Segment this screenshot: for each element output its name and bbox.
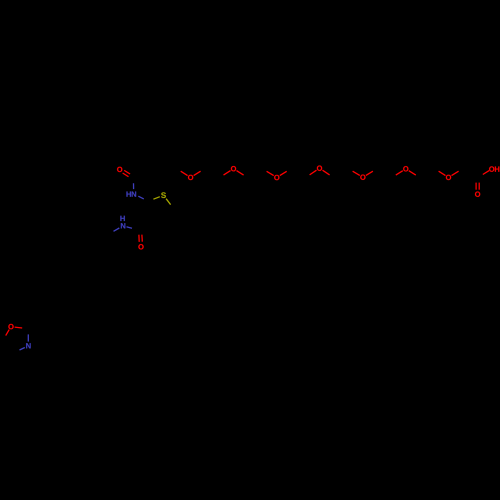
oxazoline C2=N bond	[27, 334, 29, 341]
chain bond 5	[205, 169, 219, 178]
chain bond 22 O-C (C half)	[459, 169, 463, 172]
chain bond 19 O-C (C half)	[416, 175, 420, 178]
acid C=O double bond line b	[478, 183, 480, 190]
chain bond 16 O-C	[366, 171, 373, 175]
chain bond 7 O-C (C half)	[244, 175, 248, 178]
bond C(=O)-N amide2	[127, 227, 133, 229]
acid C=O double bond line a	[475, 183, 477, 190]
chain bond 2	[162, 169, 176, 178]
oxazoline C2=N bond (C half)	[27, 329, 29, 335]
chain bond 19 O-C	[409, 171, 416, 175]
amide C=O stub	[139, 231, 141, 235]
chain bond 17	[377, 169, 391, 178]
acyl C=O double bond line a	[124, 170, 130, 174]
alkyl chain bond 12	[42, 311, 55, 319]
atom O ether 4	[317, 166, 322, 171]
atom N (amide 2)	[121, 223, 125, 228]
bond CH3-N amide2 (C half)	[109, 231, 113, 234]
bond C5-S1 thiophene	[166, 199, 171, 205]
thiophene C2=C3	[149, 201, 153, 218]
chain bond 22 O-C	[452, 171, 459, 175]
alkyl chain bond 9	[82, 311, 95, 319]
atom O (acyl carbonyl)	[117, 167, 122, 172]
chain bond 8	[248, 169, 262, 178]
alkyl chain bond 1	[163, 237, 176, 245]
alkyl chain bond 11	[55, 311, 68, 319]
atom O oxazoline	[8, 324, 13, 329]
acid OH hydrogen	[495, 166, 499, 171]
chain bond 13 O-C (C half)	[330, 175, 334, 178]
chain bond 13 O-C	[323, 170, 330, 175]
chain bond 3 C-O	[181, 171, 188, 175]
oxazoline C4-C5	[3, 340, 14, 353]
bond C2-S1 thiophene (C half)	[149, 199, 154, 201]
chain bond 6 C-O	[224, 171, 231, 176]
oxazoline C5-O bond (C half)	[3, 336, 6, 341]
atom O ether 1	[188, 175, 193, 180]
alkyl chain bond 3	[145, 262, 158, 270]
atom O (amide 2 carbonyl)	[138, 244, 143, 249]
atom O ether 6	[403, 166, 408, 171]
bond C3-C(=O)	[140, 218, 152, 230]
atom O (acid carbonyl)	[475, 192, 480, 197]
bond C2-S1 thiophene	[153, 197, 159, 200]
atom O of acid OH	[489, 166, 494, 171]
atom S thiophene	[161, 192, 166, 198]
amide C=O double bond line b	[141, 235, 143, 242]
chain bond 3 C-O (C half)	[176, 169, 180, 172]
oxazoline C2-O bond (C half)	[22, 327, 28, 330]
chain bond 23	[463, 169, 478, 178]
atom O ether 3	[274, 175, 279, 180]
oxazoline C4-N bond	[20, 348, 25, 351]
oxazoline C4-N bond (C half)	[14, 350, 20, 353]
oxazoline C5-O bond	[6, 330, 10, 336]
alkyl chain bond 2	[158, 245, 163, 262]
amide 1 N-H hydrogen	[126, 191, 130, 196]
chain bond 18 C-O	[396, 171, 403, 175]
alkyl chain bond 0	[170, 221, 177, 237]
chain bond 16 O-C (C half)	[373, 169, 377, 172]
alkyl chain bond 4	[140, 269, 145, 286]
amide C=O double bond line a	[138, 235, 140, 242]
chain bond 15 C-O (C half)	[348, 169, 352, 172]
chain bond 10 O-C (C half)	[287, 169, 291, 172]
thiophene C2=C3 inner	[151, 203, 155, 220]
bond N(H)-C2 thiophene (C half)	[144, 199, 149, 201]
bond N(H)-C2 thiophene	[138, 196, 144, 199]
amide 2 N-H hydrogen	[120, 216, 124, 221]
atom O ether 5	[360, 175, 365, 180]
chain bond 9 C-O	[267, 171, 274, 175]
atom O ether 2	[231, 166, 236, 171]
chain bond 1	[148, 169, 162, 178]
thiophene C4=C5	[170, 209, 174, 221]
acid C-OH bond	[483, 171, 489, 175]
alkyl chain bond 10	[69, 311, 82, 319]
chain bond 12 C-O	[310, 170, 317, 175]
bond C5-S1 thiophene (C half)	[171, 205, 174, 209]
thiophene C3-C4	[152, 218, 169, 221]
bond C(acyl)-N amide1	[133, 183, 135, 189]
chain bond 12 C-O (C half)	[305, 175, 309, 178]
alkyl chain bond 5	[127, 286, 140, 294]
chain bond 14	[334, 169, 348, 178]
chain bond 20	[420, 169, 434, 178]
chain bond 11	[291, 169, 305, 178]
chain bond 21 C-O (C half)	[434, 169, 438, 172]
chain bond 4 O-C	[194, 171, 201, 175]
acid C-OH bond (C half)	[478, 175, 483, 178]
bond CH3-N amide2	[114, 228, 120, 231]
chain bond 0	[133, 169, 147, 178]
alkyl chain bond 6	[122, 294, 127, 311]
atom N (amide 1)	[132, 191, 136, 196]
oxazoline C2-O bond	[15, 326, 23, 329]
chain bond 6 C-O (C half)	[219, 175, 223, 178]
chain bond 15 C-O	[353, 171, 360, 175]
chain bond 21 C-O	[439, 171, 446, 175]
alkyl chain bond 7	[109, 311, 122, 319]
alkyl chain bond 13	[28, 311, 42, 329]
chain bond 10 O-C	[280, 171, 287, 175]
chain bond 18 C-O (C half)	[392, 175, 396, 178]
chain bond 9 C-O (C half)	[262, 169, 266, 172]
chain bond 4 O-C (C half)	[201, 169, 205, 172]
alkyl chain bond 8	[96, 311, 109, 319]
atom O ether 7	[446, 175, 451, 180]
bond C(=O)-N amide2 (C half)	[132, 228, 140, 230]
acyl C=O double bond line b	[123, 173, 129, 177]
bond C(acyl)-N amide1 (C half)	[132, 178, 134, 183]
atom N oxazoline	[26, 343, 30, 348]
thiophene C4=C5 inner	[169, 206, 173, 218]
chain bond 7 O-C	[237, 171, 244, 176]
